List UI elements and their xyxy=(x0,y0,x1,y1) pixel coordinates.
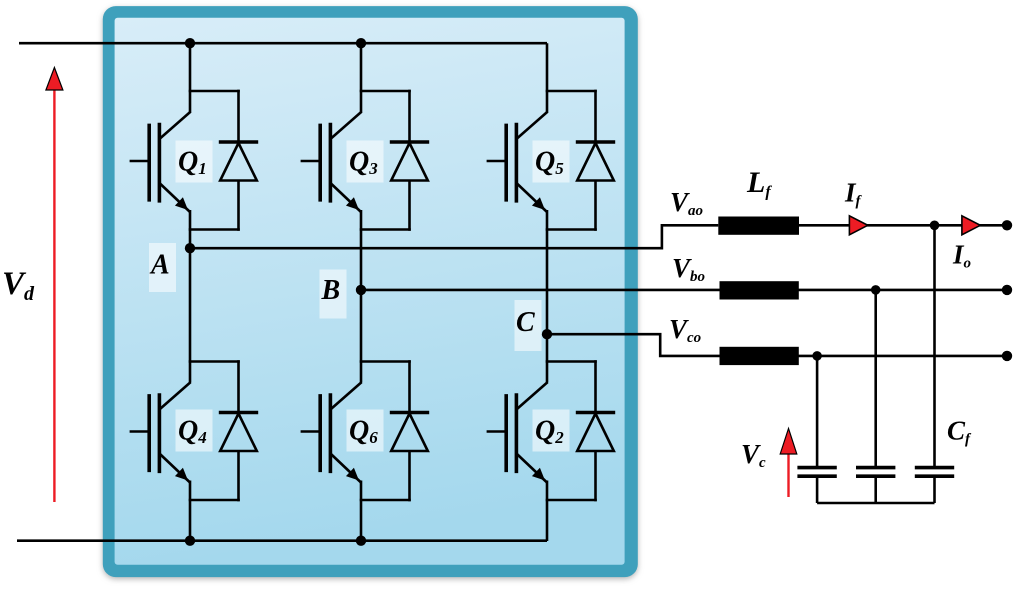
wire phase A output with step xyxy=(190,225,718,248)
svg-text:A: A xyxy=(149,250,170,281)
IGBT Q6 collector diagonal xyxy=(330,382,361,409)
wire Q3 collector from top rail xyxy=(360,43,363,112)
svg-text:C: C xyxy=(516,307,535,338)
IGBT Q5 collector diagonal xyxy=(516,112,547,139)
wire branch to diode D4 top xyxy=(189,360,240,363)
IGBT Q6 gate bar xyxy=(318,394,322,472)
wire Q2 collector from phase node xyxy=(546,334,549,382)
label B xyxy=(320,270,347,319)
IGBT Q6 gate lead xyxy=(301,430,322,433)
wire phase B output xyxy=(361,289,1007,292)
svg-text:Vao: Vao xyxy=(670,187,703,219)
wire Q1 emitter down to node xyxy=(189,210,192,248)
junction top rail / leg B xyxy=(356,38,366,48)
junction bottom rail / leg B xyxy=(356,536,366,546)
diode D3 anti-parallel (top row) xyxy=(390,90,429,231)
wire branch to diode D2 top xyxy=(546,360,597,363)
IGBT Q3 emitter with arrow xyxy=(330,183,361,212)
arrow Vd (DC-link voltage, red) xyxy=(46,68,63,503)
IGBT Q5 emitter with arrow xyxy=(516,183,547,212)
wire top DC rail (+) xyxy=(19,42,547,45)
svg-text:Cf: Cf xyxy=(947,416,972,448)
IGBT Q1 gate bar xyxy=(147,124,151,202)
IGBT Q1 body bar xyxy=(158,123,162,203)
label Vc xyxy=(741,439,766,471)
inductor Lf phase C xyxy=(720,347,799,365)
wire Q4 emitter to diode bottom xyxy=(189,499,240,502)
capacitor Cf phase C xyxy=(797,468,836,503)
IGBT Q6 body bar xyxy=(329,393,333,473)
arrow If (filter current, red) xyxy=(849,216,867,235)
capacitor Cf phase B xyxy=(856,468,895,503)
wire Q5 collector from top rail xyxy=(546,43,549,112)
node C xyxy=(542,329,552,339)
label C xyxy=(515,300,542,351)
IGBT Q3 collector diagonal xyxy=(330,112,361,139)
wire Q6 emitter to bottom rail xyxy=(360,481,363,542)
diode D6 anti-parallel (bottom row) xyxy=(390,360,429,501)
label Lf xyxy=(746,166,772,201)
wire branch to diode D3 top xyxy=(360,90,411,93)
wire capacitor common bus xyxy=(817,502,934,505)
IGBT Q2 gate lead xyxy=(487,430,508,433)
svg-text:Vc: Vc xyxy=(741,439,766,471)
inductor Lf phase B xyxy=(720,281,799,299)
junction phase B / capacitor branch xyxy=(871,285,881,295)
IGBT Q5 gate bar xyxy=(504,124,508,202)
wire Q6 collector from phase node xyxy=(360,290,363,383)
arrow Io (output current, red) xyxy=(962,216,980,235)
wire Q4 collector from phase node xyxy=(189,248,192,382)
svg-text:Vco: Vco xyxy=(669,314,701,346)
node A xyxy=(185,243,195,253)
label Q3 xyxy=(347,141,384,183)
IGBT Q1 gate lead xyxy=(130,160,151,163)
diode D5 anti-parallel (top row) xyxy=(576,90,615,231)
label Vao xyxy=(670,187,703,219)
junction top rail / leg A xyxy=(185,38,195,48)
IGBT Q2 body bar xyxy=(515,393,519,473)
svg-text:Lf: Lf xyxy=(746,166,772,201)
IGBT Q2 emitter with arrow xyxy=(516,454,547,483)
wire Q2 emitter to diode bottom xyxy=(546,499,597,502)
wire Q6 emitter to diode bottom xyxy=(360,499,411,502)
diode D2 anti-parallel (bottom row) xyxy=(576,360,615,501)
label Q6 xyxy=(347,410,384,452)
wire Q3 emitter down to node xyxy=(360,210,363,290)
wire Q5 emitter to diode bottom xyxy=(546,228,597,231)
wire phase A after inductor xyxy=(799,224,1007,227)
IGBT Q4 gate bar xyxy=(147,394,151,472)
IGBT Q5 body bar xyxy=(515,123,519,203)
junction phase C / capacitor branch xyxy=(812,351,822,361)
IGBT Q1 collector diagonal xyxy=(159,112,190,139)
terminal phase C xyxy=(1002,351,1012,361)
IGBT Q4 body bar xyxy=(158,393,162,473)
wire branch to diode D5 top xyxy=(546,90,597,93)
junction bottom rail / leg A xyxy=(185,536,195,546)
IGBT Q4 emitter with arrow xyxy=(159,454,190,483)
node B xyxy=(356,285,366,295)
capacitor Cf phase A xyxy=(915,468,954,503)
svg-text:Io: Io xyxy=(952,240,971,272)
diode D1 anti-parallel (top row) xyxy=(219,90,258,231)
svg-text:If: If xyxy=(844,178,863,210)
label Q1 xyxy=(176,141,213,183)
IGBT Q2 gate bar xyxy=(504,394,508,472)
inductor Lf phase A xyxy=(718,217,799,235)
label Vco xyxy=(669,314,701,346)
wire Q2 emitter to bottom rail xyxy=(546,481,549,542)
IGBT Q6 emitter with arrow xyxy=(330,454,361,483)
IGBT Q3 gate lead xyxy=(301,160,322,163)
wire Q3 emitter to diode bottom xyxy=(360,228,411,231)
wire capacitor branch phase A xyxy=(933,225,936,466)
IGBT Q2 collector diagonal xyxy=(516,382,547,409)
wire Q5 emitter down to node xyxy=(546,210,549,334)
svg-text:B: B xyxy=(321,275,341,306)
IGBT Q5 gate lead xyxy=(487,160,508,163)
label Vd xyxy=(2,266,35,305)
wire phase C output with step xyxy=(547,334,1007,356)
IGBT Q4 gate lead xyxy=(130,430,151,433)
IGBT Q1 emitter with arrow xyxy=(159,183,190,212)
label Io xyxy=(952,240,971,272)
label Q5 xyxy=(533,141,570,183)
label Q4 xyxy=(176,410,213,452)
IGBT Q3 gate bar xyxy=(318,124,322,202)
IGBT Q4 collector diagonal xyxy=(159,382,190,409)
label A xyxy=(149,243,176,292)
wire bottom DC rail (-) xyxy=(17,539,547,542)
svg-text:Vbo: Vbo xyxy=(672,253,705,285)
wire Q1 collector from top rail xyxy=(189,43,192,112)
wire capacitor branch phase C xyxy=(816,356,819,466)
wire Q4 emitter to bottom rail xyxy=(189,481,192,542)
junction phase A / capacitor branch xyxy=(930,221,940,231)
label If xyxy=(844,178,863,210)
wire Q1 emitter to diode bottom xyxy=(189,228,240,231)
diode D4 anti-parallel (bottom row) xyxy=(219,360,258,501)
svg-text:Vd: Vd xyxy=(2,266,35,305)
label Cf xyxy=(947,416,972,448)
wire capacitor branch phase B xyxy=(874,290,877,466)
terminal phase B xyxy=(1002,285,1012,295)
label Q2 xyxy=(533,410,570,452)
wire branch to diode D6 top xyxy=(360,360,411,363)
label Vbo xyxy=(672,253,705,285)
inverter bridge enclosure box xyxy=(103,6,638,577)
terminal phase A xyxy=(1002,220,1012,230)
IGBT Q3 body bar xyxy=(329,123,333,203)
wire branch to diode D1 top xyxy=(189,90,240,93)
arrow Vc (capacitor voltage, red) xyxy=(780,429,797,498)
